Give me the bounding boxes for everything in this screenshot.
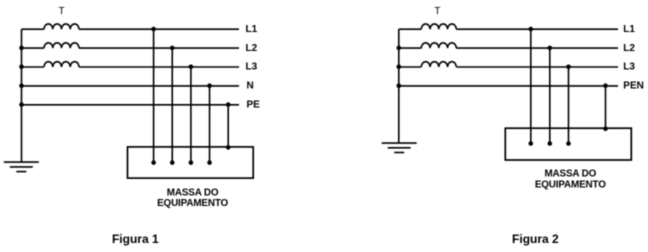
svg-text:Figura 2: Figura 2 [512, 232, 559, 246]
svg-text:MASSA DO: MASSA DO [167, 187, 219, 198]
svg-text:L2: L2 [246, 43, 258, 54]
svg-text:PE: PE [247, 100, 261, 111]
svg-text:N: N [247, 81, 254, 92]
svg-text:L1: L1 [246, 24, 258, 35]
svg-text:PEN: PEN [623, 81, 644, 92]
svg-text:EQUIPAMENTO: EQUIPAMENTO [535, 179, 606, 190]
svg-text:L2: L2 [623, 43, 635, 54]
svg-text:L3: L3 [246, 62, 258, 73]
svg-text:EQUIPAMENTO: EQUIPAMENTO [157, 198, 228, 209]
svg-text:L1: L1 [623, 24, 635, 35]
svg-text:T: T [59, 6, 65, 17]
svg-text:Figura 1: Figura 1 [112, 232, 159, 246]
svg-text:L3: L3 [623, 62, 635, 73]
svg-text:MASSA DO: MASSA DO [544, 169, 596, 180]
svg-text:T: T [434, 6, 440, 17]
